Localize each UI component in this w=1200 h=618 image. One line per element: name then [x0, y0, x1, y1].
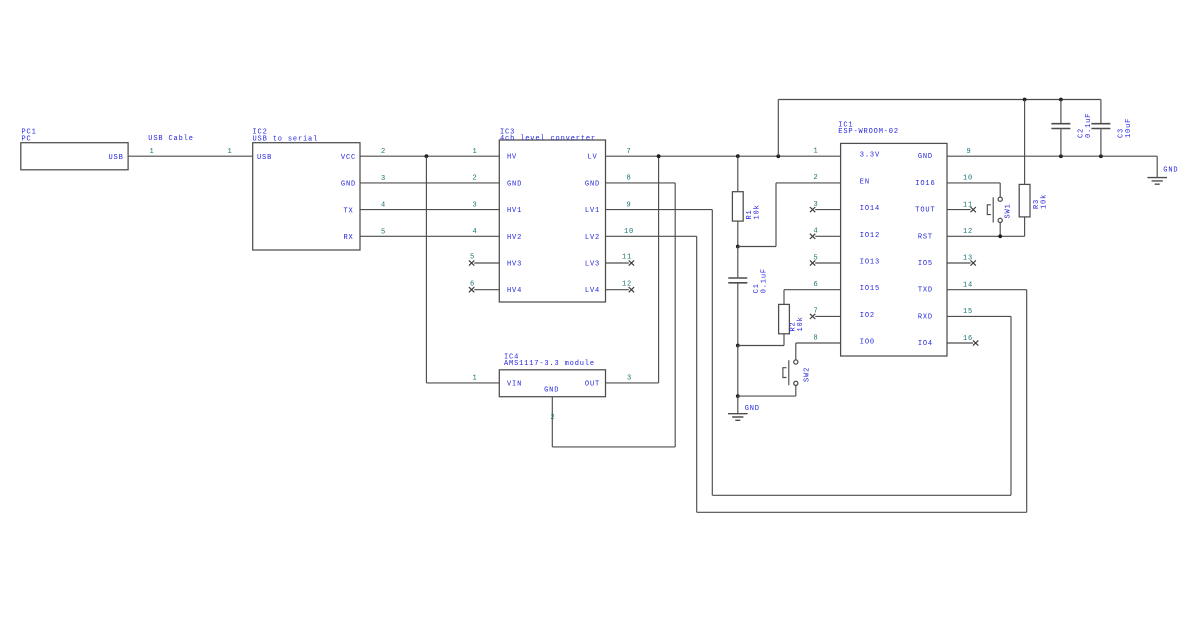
IC3 pin LV4 no-connect stub	[606, 289, 629, 291]
wire branch down to IC4.VIN	[425, 156, 427, 383]
junction R1 top on 3.3V	[736, 154, 740, 158]
wire GND column down	[737, 346, 739, 397]
svg-text:9: 9	[967, 148, 972, 156]
wire IC3.GND(8) to riser	[606, 182, 676, 184]
IC3 pin HV4 no-connect stub	[474, 289, 499, 291]
wire GND drop right	[1156, 156, 1158, 177]
svg-text:SW1: SW1	[1005, 203, 1013, 218]
wire LV1 riser down	[711, 210, 713, 496]
junction R3 on top rail	[1023, 98, 1027, 102]
wire EN horizontal	[738, 246, 776, 248]
resistor R2 lead bottom	[783, 334, 785, 346]
ground symbol (main GND)	[737, 396, 739, 413]
wire VCC: IC2.2 to IC3.HV	[360, 155, 499, 157]
svg-text:4: 4	[381, 202, 386, 210]
svg-text:RXD: RXD	[918, 313, 933, 321]
svg-text:3: 3	[473, 201, 478, 209]
svg-text:IO2: IO2	[860, 312, 875, 320]
IC3	[469, 128, 634, 302]
junction VCC/VIN branch	[425, 154, 429, 158]
IC1 pin IO5 no-connect stub	[947, 262, 971, 264]
no-connect X on HV4	[469, 287, 474, 292]
switch SW2 contact circle bottom	[794, 381, 798, 385]
junction top-rail riser on 3.3V	[776, 154, 780, 158]
svg-text:4: 4	[473, 228, 478, 236]
IC2	[253, 129, 361, 250]
svg-text:0.1uF: 0.1uF	[1085, 113, 1093, 138]
wire PC1.USB to IC2.USB	[128, 155, 253, 157]
switch SW2 contact circle top	[794, 360, 798, 364]
long wires	[606, 210, 1027, 513]
switch SW1 contact circle bottom	[998, 218, 1002, 222]
junction SW1 bottom on RST wire	[998, 234, 1002, 238]
svg-text:8: 8	[814, 334, 819, 342]
svg-text:HV4: HV4	[507, 287, 522, 295]
svg-text:15: 15	[963, 308, 973, 316]
no-connect X on LV3	[629, 260, 634, 265]
svg-text:GND: GND	[918, 153, 933, 161]
PC1	[21, 129, 128, 170]
IC3 pin HV3 no-connect stub	[474, 262, 499, 264]
wire GND: IC2.3 to IC3.GND	[360, 182, 499, 184]
svg-text:10uF: 10uF	[1125, 118, 1133, 138]
svg-text:GND: GND	[341, 181, 356, 189]
svg-text:1: 1	[228, 148, 233, 156]
svg-text:1: 1	[473, 374, 478, 382]
mid components	[606, 100, 841, 421]
svg-text:IO15: IO15	[860, 285, 880, 293]
svg-text:OUT: OUT	[585, 380, 600, 388]
junction R1 bottom / EN / C1	[736, 245, 740, 249]
svg-text:LV3: LV3	[585, 261, 600, 269]
svg-text:1: 1	[473, 148, 478, 156]
no-connect X on HV3	[469, 260, 474, 265]
svg-text:3: 3	[627, 374, 632, 382]
svg-text:1: 1	[150, 148, 155, 156]
wire into IC4.VIN	[426, 382, 499, 384]
svg-text:2: 2	[381, 148, 386, 156]
svg-text:VCC: VCC	[341, 154, 356, 162]
svg-text:GND: GND	[507, 180, 522, 188]
IC2 box	[253, 143, 360, 250]
svg-text:GND: GND	[544, 386, 559, 394]
svg-text:10k: 10k	[1040, 194, 1048, 209]
capacitor C1 lead bottom	[737, 284, 739, 346]
svg-text:USB: USB	[109, 154, 124, 162]
IC1 box	[841, 143, 947, 356]
resistor R2 lead top	[783, 290, 785, 305]
IC3 box	[499, 140, 605, 302]
wire SW1 top lead	[999, 183, 1001, 197]
wire IC4.OUT to 3.3V riser	[606, 382, 659, 384]
svg-text:VIN: VIN	[507, 380, 522, 388]
IC1 pin TOUT no-connect stub	[947, 209, 971, 211]
svg-text:GND: GND	[585, 180, 600, 188]
svg-text:5: 5	[470, 254, 475, 262]
no-connect X on LV4	[629, 287, 634, 292]
right components	[778, 98, 1178, 239]
svg-text:TX: TX	[343, 207, 353, 215]
wire IC1.IO0 to SW2	[796, 342, 841, 344]
capacitor C3 lead top	[1100, 100, 1102, 124]
IC1 pin IO2 no-connect stub	[815, 315, 840, 317]
svg-text:IO13: IO13	[860, 259, 880, 267]
svg-text:HV2: HV2	[507, 234, 522, 242]
wire 3.3V top rail	[778, 99, 1101, 101]
IC1 pin IO13 no-connect stub	[815, 262, 840, 264]
capacitor C2 lead bottom	[1060, 129, 1062, 156]
svg-text:RX: RX	[343, 234, 353, 242]
IC4 box	[499, 370, 605, 397]
switch SW2 button bracket	[783, 368, 787, 378]
net USB Cable	[128, 135, 253, 156]
PC1 box	[21, 143, 128, 170]
ground symbol (right GND)	[1147, 178, 1167, 185]
switch SW2 plunger bar	[788, 360, 790, 385]
resistor R3 body	[1019, 184, 1030, 217]
svg-text:6: 6	[470, 280, 475, 288]
svg-text:6: 6	[814, 281, 819, 289]
svg-text:ESP-WROOM-02: ESP-WROOM-02	[838, 128, 899, 136]
wire riser to top rail	[777, 100, 779, 157]
resistor R1 lead top	[737, 156, 739, 192]
svg-text:GND: GND	[745, 405, 760, 413]
capacitor C1 lead top	[737, 247, 739, 278]
svg-text:USB Cable: USB Cable	[148, 135, 193, 143]
svg-text:2: 2	[814, 174, 819, 182]
svg-text:14: 14	[963, 281, 973, 289]
wire SW1 bottom lead	[999, 223, 1001, 237]
IC1 pin IO12 no-connect stub	[815, 235, 840, 237]
junction GND column / SW2	[736, 394, 740, 398]
svg-text:IO12: IO12	[860, 232, 880, 240]
IC1	[810, 121, 978, 356]
no-connect X on IO13	[810, 260, 815, 265]
svg-text:TXD: TXD	[918, 287, 933, 295]
svg-text:LV: LV	[587, 154, 597, 162]
svg-text:5: 5	[381, 228, 386, 236]
capacitor C1 plates	[728, 278, 747, 283]
svg-text:10: 10	[963, 175, 973, 183]
svg-text:2: 2	[551, 414, 556, 422]
svg-text:2: 2	[473, 175, 478, 183]
svg-text:0.1uF: 0.1uF	[760, 268, 768, 293]
svg-text:8: 8	[627, 175, 632, 183]
svg-text:10k: 10k	[753, 204, 761, 219]
svg-text:1: 1	[814, 148, 819, 156]
wire EN to IC1 pin 2	[776, 182, 841, 184]
svg-text:IO16: IO16	[915, 180, 935, 188]
wire RX: IC2.5 to IC3.HV2	[360, 235, 499, 237]
svg-text:3.3V: 3.3V	[860, 152, 880, 160]
svg-text:TOUT: TOUT	[915, 207, 935, 215]
svg-text:IO4: IO4	[918, 340, 933, 348]
no-connect X on IO4	[973, 340, 978, 345]
svg-text:LV1: LV1	[585, 207, 600, 215]
wire IC1.RST to R3 bottom	[947, 235, 1025, 237]
svg-text:4ch level converter: 4ch level converter	[500, 135, 596, 143]
junction C3 on GND wire	[1099, 154, 1103, 158]
svg-text:EN: EN	[860, 178, 870, 186]
resistor R1 lead bottom	[737, 221, 739, 246]
capacitor C2 plates	[1051, 124, 1070, 129]
svg-text:USB to serial: USB to serial	[253, 135, 319, 143]
junction OUT riser on 3.3V	[657, 154, 661, 158]
svg-text:RST: RST	[918, 233, 933, 241]
wire GND: IC1.9 to ground	[947, 155, 1157, 157]
svg-text:HV: HV	[507, 154, 517, 162]
no-connect X on IO12	[810, 234, 815, 239]
svg-text:IO5: IO5	[918, 260, 933, 268]
IC1 pin IO4 no-connect stub	[947, 342, 973, 344]
capacitor C3 plates	[1091, 124, 1110, 129]
resistor R2 body	[779, 304, 790, 333]
wire riser OUT up to 3.3V net	[658, 156, 660, 383]
junction C1 bottom / R2 bottom	[736, 344, 740, 348]
wire IC4.GND right	[552, 446, 675, 448]
svg-text:IO14: IO14	[860, 205, 880, 213]
wire R2 top to IC1.IO15	[784, 289, 841, 291]
wire IC1.IO16 to SW1	[947, 182, 1000, 184]
svg-text:10k: 10k	[797, 316, 805, 331]
wire GND riser up to IC3 pin8	[674, 183, 676, 447]
svg-text:3: 3	[381, 175, 386, 183]
wire LV2 bottom run	[697, 511, 1027, 513]
resistor R3 lead top	[1024, 100, 1026, 185]
svg-text:9: 9	[627, 201, 632, 209]
wire EN riser	[775, 183, 777, 247]
IC3 pin LV3 no-connect stub	[606, 262, 629, 264]
no-connect X on IO5	[971, 260, 976, 265]
svg-text:IO0: IO0	[860, 339, 875, 347]
wire 3.3V: IC3.LV to IC1.3V3	[606, 155, 841, 157]
IC1 pin IO14 no-connect stub	[815, 209, 840, 211]
no-connect X on IO2	[810, 314, 815, 319]
svg-text:12: 12	[622, 280, 632, 288]
svg-text:HV1: HV1	[507, 207, 522, 215]
svg-text:SW2: SW2	[804, 367, 812, 382]
switch SW1 contact circle top	[998, 197, 1002, 201]
wire SW2 bottom lead	[795, 385, 797, 396]
svg-text:PC: PC	[22, 135, 32, 143]
wire IC3.LV1 to RXD (segment from IC3)	[606, 209, 713, 211]
switch SW1 plunger bar	[992, 197, 994, 222]
svg-text:7: 7	[627, 148, 632, 156]
no-connect X on TOUT	[971, 207, 976, 212]
wire TXD riser up	[1026, 290, 1028, 513]
wire LV2 riser down	[696, 236, 698, 512]
resistor R1 body	[732, 192, 743, 221]
capacitor C2 lead top	[1060, 100, 1062, 124]
svg-text:LV4: LV4	[585, 287, 600, 295]
switch SW1 button bracket	[987, 205, 991, 215]
svg-text:HV3: HV3	[507, 261, 522, 269]
svg-text:GND: GND	[1163, 167, 1178, 175]
resistor R3 lead bottom	[1024, 217, 1026, 236]
svg-text:AMS1117-3.3 module: AMS1117-3.3 module	[504, 360, 595, 368]
svg-text:16: 16	[963, 335, 973, 343]
wire R2 bottom to GND column	[738, 345, 784, 347]
wire into IC1.TXD	[947, 289, 1027, 291]
wire IC4.GND down	[551, 397, 553, 447]
wire IC3.LV2 to TXD (segment from IC3)	[606, 235, 697, 237]
svg-text:LV2: LV2	[585, 234, 600, 242]
wire SW2 top lead	[795, 343, 797, 360]
wire LV1 bottom run	[712, 494, 1011, 496]
wire into IC1.RXD	[947, 315, 1011, 317]
svg-text:USB: USB	[257, 154, 272, 162]
capacitor C3 lead bottom	[1100, 129, 1102, 156]
junction C2 on top rail	[1059, 98, 1063, 102]
wire SW2 bottom to GND column	[738, 395, 796, 397]
junction C2 on GND wire	[1059, 154, 1063, 158]
svg-text:11: 11	[622, 254, 632, 262]
no-connect X on IO14	[810, 207, 815, 212]
svg-text:12: 12	[963, 228, 973, 236]
nets IC2 to IC3	[360, 148, 499, 383]
wire RXD riser up	[1010, 316, 1012, 495]
IC4	[473, 156, 676, 447]
svg-text:10: 10	[624, 228, 634, 236]
wire TX: IC2.4 to IC3.HV1	[360, 209, 499, 211]
